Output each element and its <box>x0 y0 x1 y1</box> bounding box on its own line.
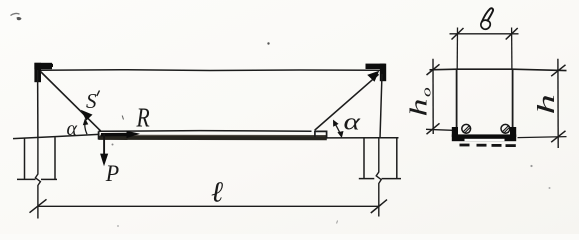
load arrow P (vertical, pointing down) <box>103 134 105 157</box>
left column centre line with break and extension <box>35 137 40 218</box>
label alpha (right) <box>344 109 362 136</box>
top chord (tie line between corner plates) <box>40 69 380 72</box>
right support ledge line <box>327 137 399 139</box>
h bottom extension line <box>518 137 567 138</box>
stray dot near top middle <box>267 42 269 44</box>
svg-text:h: h <box>405 99 432 117</box>
beam (panel) top edge <box>99 130 312 133</box>
h top tick <box>551 65 565 76</box>
arrowhead on right diagonal (at corner, pointing up-right) <box>367 71 379 82</box>
b dimension line <box>450 33 519 35</box>
label h0 (rotated) <box>405 87 433 116</box>
label b (hand-drawn script ve) <box>481 8 493 29</box>
left wall vertical line <box>37 70 39 137</box>
h bottom tick <box>551 131 565 142</box>
svg-text:α: α <box>344 109 362 136</box>
apostrophe after S <box>97 91 100 97</box>
h0 dimension line <box>432 59 434 134</box>
svg-text:α: α <box>67 118 78 140</box>
reaction arrow R (thick, pointing right) <box>101 133 128 137</box>
stray tick near S label <box>122 116 123 120</box>
svg-text:h: h <box>533 94 560 114</box>
stray faint dots lower area <box>112 144 114 146</box>
left corner embedded plate (filled mark) <box>34 63 53 82</box>
right angle arc with arrows (double-headed) <box>335 124 341 135</box>
left angle arc with arrow <box>85 122 87 135</box>
label P <box>105 160 120 186</box>
right diagonal strut line <box>315 74 379 130</box>
h0 bottom extension line (at rebar level) <box>426 129 453 130</box>
left dimension tick <box>30 199 47 212</box>
svg-text:ℓ: ℓ <box>211 177 223 209</box>
svg-text:P: P <box>105 160 120 186</box>
right dimension tick <box>371 200 387 213</box>
section top edge with extensions to h0 and h lines <box>430 69 567 70</box>
b dimension extension lines <box>456 28 458 69</box>
beam heavy bottom band <box>99 136 327 141</box>
svg-text:R: R <box>136 103 150 133</box>
left support ledge line <box>13 134 99 138</box>
left diagonal strut line <box>41 72 102 132</box>
span dimension line l <box>38 205 379 207</box>
dashed line under section <box>460 144 516 147</box>
section rectangle sides <box>456 69 458 135</box>
label h (rotated) <box>533 94 560 114</box>
right corner embedded plate (filled mark) <box>366 64 387 82</box>
svg-text:S: S <box>86 89 97 113</box>
left column outline <box>17 137 57 179</box>
h0 bottom tick <box>427 123 440 134</box>
label R <box>136 103 150 133</box>
rebar circle left <box>462 124 471 133</box>
stray smudge top-left <box>11 13 22 20</box>
rebar circle right <box>501 124 510 133</box>
right wall vertical line <box>380 74 382 138</box>
beam right end bearing box <box>315 131 327 138</box>
slight thinning of channel middle (paper show-through) <box>465 139 505 141</box>
svg-text:o: o <box>419 87 434 97</box>
beam left end edge <box>98 131 100 139</box>
h0 top tick <box>427 64 440 75</box>
right column centre line with break and extension <box>376 138 381 216</box>
b dimension ticks <box>452 28 464 40</box>
h dimension line <box>557 59 559 148</box>
arrowhead S (on left diagonal, pointing up-left) <box>81 110 93 121</box>
right column outline <box>359 138 401 178</box>
bottom steel channel (thick black) <box>452 127 516 141</box>
